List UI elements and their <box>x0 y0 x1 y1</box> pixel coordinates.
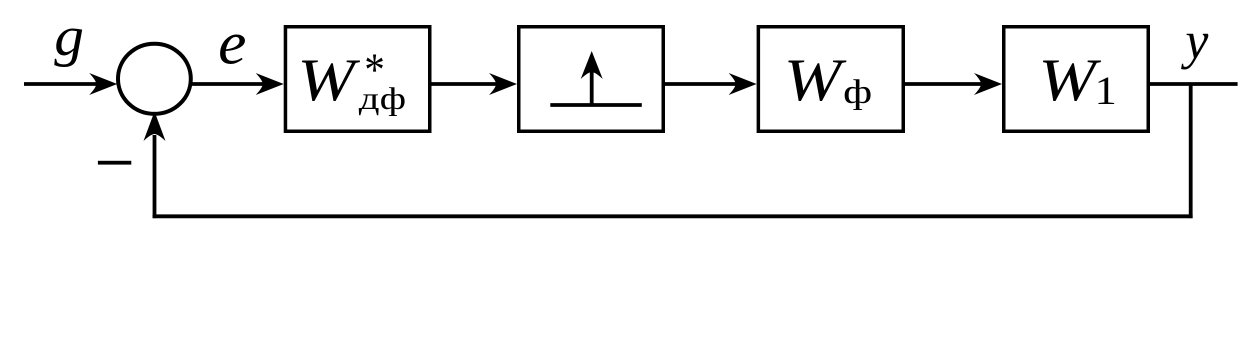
node: arrowhead into block W1 <box>974 73 1002 95</box>
svg-text:y: y <box>1180 11 1209 70</box>
wire: block2 to block3 <box>665 82 740 86</box>
svg-text:W: W <box>297 47 361 114</box>
svg-text:W: W <box>784 47 848 114</box>
node: feedback arrowhead into summer bottom <box>144 111 166 141</box>
wire: input g line <box>24 82 98 86</box>
node: arrowhead into sampler block <box>489 73 517 95</box>
svg-text:g: g <box>54 7 84 68</box>
wire: feedback left vertical up to summer <box>153 135 157 218</box>
block: W1 box <box>1004 27 1149 132</box>
block: W*df box <box>285 27 429 132</box>
wire: feedback bottom horizontal <box>153 214 1193 218</box>
svg-text:дф: дф <box>359 80 406 116</box>
svg-text:e: e <box>218 9 246 78</box>
node: arrowhead into block Wf <box>729 73 757 95</box>
block: Wf box <box>758 27 903 132</box>
svg-text:ф: ф <box>843 73 872 110</box>
svg-text:W: W <box>1038 47 1102 114</box>
wire: output y line <box>1150 82 1238 86</box>
sampler arrow stem <box>590 70 594 105</box>
node: arrowhead into block W*df <box>256 73 284 95</box>
wire: block3 to block4 <box>905 82 985 86</box>
wire: feedback right vertical <box>1189 84 1193 218</box>
block: sampler box <box>519 27 664 132</box>
wire: block1 to block2 <box>432 82 501 86</box>
node: input arrowhead into summer <box>89 73 117 95</box>
wire: e segment from summer to block1 <box>190 82 264 86</box>
sampler arrowhead <box>581 51 603 79</box>
svg-text:1: 1 <box>1095 69 1117 114</box>
sampler baseline <box>550 103 642 107</box>
summing junction circle <box>118 44 191 114</box>
label minus sign <box>98 161 131 165</box>
